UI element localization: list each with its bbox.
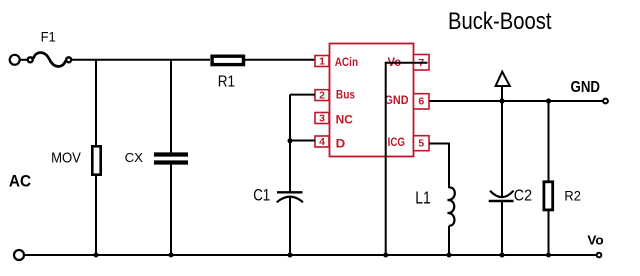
svg-text:6: 6	[418, 96, 424, 108]
wire CX branch bottom	[170, 165, 172, 256]
svg-text:2: 2	[319, 90, 325, 102]
triangle marker	[496, 72, 510, 86]
wire pin 5 to L1	[429, 144, 449, 189]
wire pin 4 to bus node	[290, 140, 315, 142]
junction C2 top	[499, 98, 504, 103]
wire bottom rail	[25, 254, 597, 256]
wire top rail R1 to pin 1	[245, 59, 315, 61]
capacitor C2	[489, 191, 514, 201]
svg-text:MOV: MOV	[51, 151, 81, 167]
capacitor CX	[154, 155, 188, 163]
terminal AC bottom-left	[14, 250, 24, 260]
wire triangle to GND rail	[501, 86, 503, 101]
wire R2 top	[548, 101, 550, 181]
wire MOV branch bottom	[95, 175, 97, 255]
pin 2 box	[315, 90, 329, 101]
svg-text:AC: AC	[9, 173, 31, 191]
svg-text:Vo: Vo	[587, 233, 604, 247]
junction R2 top	[546, 98, 551, 103]
pin 5 box	[414, 136, 430, 151]
wire top rail fuse to R1	[72, 59, 211, 61]
terminal GND	[603, 99, 608, 104]
wire L1 bottom	[448, 226, 450, 255]
inductor L1	[448, 187, 455, 225]
svg-text:C1: C1	[253, 187, 270, 205]
svg-text:R1: R1	[218, 74, 235, 91]
wire pin 7 Vo to bottom rail	[386, 63, 428, 255]
wire GND rail pin 6 to terminal	[429, 100, 603, 102]
junction bus node	[288, 138, 293, 143]
svg-text:ICG: ICG	[388, 135, 405, 149]
varistor MOV	[92, 146, 100, 174]
wire CX branch top	[170, 60, 172, 153]
junction C2 bottom	[500, 253, 505, 258]
pin 1 box	[315, 56, 329, 67]
svg-text:3: 3	[319, 113, 325, 125]
pin 3 box	[315, 113, 329, 124]
svg-text:GND: GND	[385, 93, 409, 107]
wire C1 bottom	[289, 197, 291, 255]
svg-text:5: 5	[418, 137, 424, 149]
svg-text:R2: R2	[564, 188, 581, 204]
pin 7 box	[414, 55, 430, 71]
svg-text:GND: GND	[571, 79, 601, 96]
svg-text:Buck-Boost: Buck-Boost	[448, 8, 552, 35]
wire C2 bottom	[501, 201, 503, 255]
svg-text:Bus: Bus	[336, 88, 355, 102]
junction C1 bottom	[288, 253, 293, 258]
wire C2 top	[501, 101, 503, 197]
svg-text:NC: NC	[336, 112, 354, 126]
svg-text:ACin: ACin	[335, 55, 358, 69]
svg-text:1: 1	[319, 56, 325, 68]
capacitor C1	[277, 192, 303, 202]
wire R2 bottom	[548, 210, 550, 255]
IC U1 body	[330, 44, 414, 157]
terminal Vo	[597, 253, 602, 258]
pin 4 box	[315, 136, 329, 147]
junction R2 bottom	[546, 253, 551, 258]
wire MOV branch top	[95, 60, 97, 146]
junction Vo-wire bottom	[383, 253, 388, 258]
junction MOV bottom	[94, 253, 99, 258]
svg-text:F1: F1	[41, 29, 56, 44]
fuse F1	[21, 53, 72, 67]
wire pin 2 to bus node	[290, 94, 315, 96]
resistor R1	[212, 56, 243, 64]
junction L1 bottom	[447, 253, 452, 258]
svg-text:4: 4	[319, 136, 325, 148]
svg-text:CX: CX	[125, 150, 144, 165]
resistor R2	[544, 182, 553, 210]
svg-text:C2: C2	[514, 188, 532, 205]
wire bus node vertical	[289, 95, 291, 193]
svg-text:L1: L1	[415, 188, 431, 208]
junction CX bottom	[169, 253, 174, 258]
terminal AC top-left	[10, 55, 20, 65]
svg-text:D: D	[336, 136, 346, 150]
pin 6 box	[414, 94, 430, 109]
